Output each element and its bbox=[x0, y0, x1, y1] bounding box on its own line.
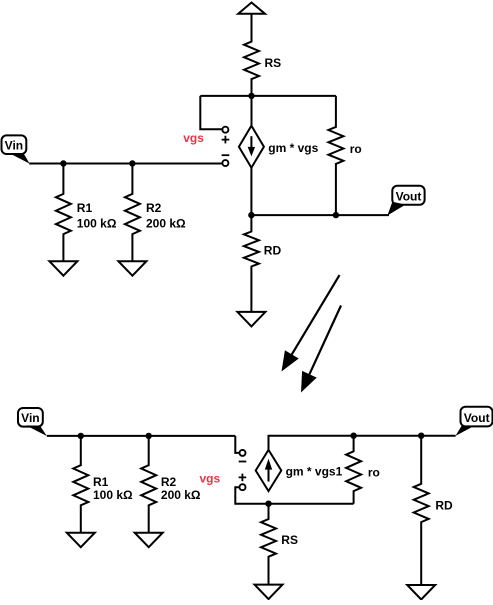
svg-text:RS: RS bbox=[281, 533, 298, 547]
wire: bracket from vgs + down to source rail (bottom circuit) bbox=[235, 487, 353, 504]
wire: top rail of top circuit bbox=[200, 95, 336, 97]
net label Vout (top circuit) bbox=[387, 186, 424, 216]
svg-text:RD: RD bbox=[435, 498, 453, 512]
node: R1 tap dot (top circuit) bbox=[60, 160, 66, 166]
wire: output rail (top circuit) bbox=[251, 168, 389, 215]
resistor R2 200k (bottom circuit) bbox=[141, 436, 156, 533]
svg-text:R2: R2 bbox=[161, 475, 177, 489]
transformation arrow 2 (right) bbox=[301, 306, 341, 393]
svg-text:200 kΩ: 200 kΩ bbox=[146, 217, 186, 231]
dependent current source gm*vgs (top circuit) bbox=[239, 126, 264, 168]
resistor RS (bottom circuit) bbox=[261, 504, 276, 585]
net label Vout (bottom circuit) bbox=[456, 407, 493, 436]
node: R2 tap dot (bottom circuit) bbox=[146, 433, 152, 439]
node: R1 tap dot (bottom circuit) bbox=[78, 433, 84, 439]
svg-text:vgs: vgs bbox=[183, 131, 204, 145]
resistor ro (top circuit) bbox=[328, 96, 343, 215]
svg-text:ro: ro bbox=[368, 465, 380, 479]
svg-text:R1: R1 bbox=[93, 475, 109, 489]
svg-text:Vout: Vout bbox=[396, 190, 422, 204]
terminal circle: vgs - (bottom circuit) bbox=[240, 450, 246, 456]
svg-text:gm * vgs1: gm * vgs1 bbox=[286, 464, 343, 478]
minus sign (bottom circuit) bbox=[239, 461, 247, 463]
svg-text:200 kΩ: 200 kΩ bbox=[161, 488, 201, 502]
ground (RD, top circuit) bbox=[237, 312, 265, 327]
wire: Vin rail (top circuit) bbox=[29, 163, 223, 165]
svg-text:Vin: Vin bbox=[21, 411, 39, 425]
ground (RD, bottom circuit) bbox=[407, 585, 435, 600]
node: gate junction dot (top circuit) bbox=[248, 93, 254, 99]
node: RD top junction dot (bottom circuit) bbox=[418, 433, 424, 439]
resistor R1 100k (top circuit) bbox=[56, 164, 71, 262]
wire: Vin rail (bottom circuit) bbox=[47, 435, 236, 437]
node: ro bottom junction dot (top circuit) bbox=[333, 212, 339, 218]
node: source junction dot (bottom circuit) bbox=[265, 501, 271, 507]
ground (R2, top circuit) bbox=[118, 261, 146, 276]
ground (R1, top circuit) bbox=[49, 261, 77, 276]
svg-text:100 kΩ: 100 kΩ bbox=[93, 488, 133, 502]
resistor RS (top circuit) bbox=[244, 14, 259, 96]
svg-text:ro: ro bbox=[350, 142, 362, 156]
resistor R1 100k (bottom circuit) bbox=[73, 436, 88, 533]
ground (R1, bottom circuit) bbox=[67, 533, 95, 548]
node: R2 tap dot (top circuit) bbox=[129, 160, 135, 166]
resistor RD (top circuit) bbox=[244, 215, 259, 312]
svg-text:100 kΩ: 100 kΩ bbox=[77, 217, 117, 231]
transformation arrow 1 (left) bbox=[282, 275, 340, 371]
terminal circle: vgs + (top circuit) bbox=[222, 127, 228, 133]
terminal circle: vgs - (top circuit) bbox=[222, 160, 228, 166]
resistor RD (bottom circuit) bbox=[414, 436, 429, 585]
ground (RS, bottom circuit) bbox=[255, 585, 283, 600]
net label Vin (bottom circuit) bbox=[18, 408, 47, 436]
svg-text:RS: RS bbox=[265, 56, 282, 70]
svg-text:Vout: Vout bbox=[464, 411, 490, 425]
plus sign (bottom circuit) bbox=[239, 474, 247, 482]
wire: source top to output rail (bottom circuit) bbox=[269, 436, 456, 450]
svg-text:R1: R1 bbox=[77, 201, 93, 215]
plus sign (top circuit) bbox=[222, 136, 230, 144]
svg-text:R2: R2 bbox=[146, 201, 162, 215]
wire: gate node to dependent source (top circuit) bbox=[251, 96, 253, 126]
dependent current source gm*vgs1 (bottom circuit) bbox=[256, 450, 282, 491]
svg-text:RD: RD bbox=[264, 243, 282, 257]
minus sign (top circuit) bbox=[222, 154, 230, 156]
power symbol (VDD) top circuit bbox=[238, 3, 265, 14]
resistor ro (bottom circuit) bbox=[346, 436, 361, 504]
wire: left bracket down to vgs + terminal (top circuit) bbox=[200, 96, 223, 129]
resistor R2 200k (top circuit) bbox=[125, 164, 140, 262]
svg-text:Vin: Vin bbox=[5, 139, 23, 153]
net label Vin (top circuit) bbox=[2, 135, 30, 163]
terminal circle: vgs + (bottom circuit) bbox=[240, 484, 246, 490]
svg-text:vgs: vgs bbox=[200, 472, 221, 486]
node: ro top junction dot (bottom circuit) bbox=[350, 433, 356, 439]
node: drain junction dot (top circuit) bbox=[248, 212, 254, 218]
wire: bracket down to vgs - terminal (bottom circuit) bbox=[235, 436, 240, 453]
ground (R2, bottom circuit) bbox=[135, 533, 163, 548]
svg-text:gm * vgs: gm * vgs bbox=[268, 141, 318, 155]
